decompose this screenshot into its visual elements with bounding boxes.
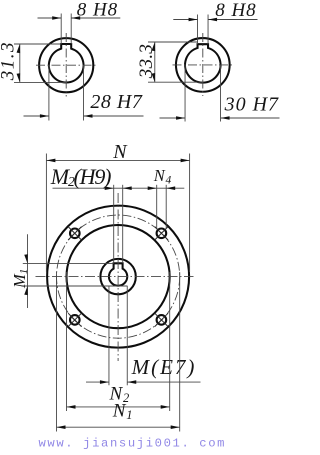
dimension 28 H7: value label <box>90 91 142 113</box>
dimension 28 H7: extension lines <box>49 65 84 120</box>
bolt hole top-left <box>68 227 81 240</box>
dimension N2: value label <box>109 383 131 405</box>
dimension 8 H8 (right): extension lines <box>198 15 209 45</box>
flange bore circle with keyway <box>109 263 127 285</box>
svg-text:M(E7): M(E7) <box>131 355 197 379</box>
svg-text:28 H7: 28 H7 <box>90 91 142 113</box>
dimension 8 H8 (right): dimension lines and arrows <box>173 18 257 22</box>
dimension M2(H9): value label <box>50 164 111 189</box>
bolt hole bottom-right <box>155 313 168 326</box>
horizontal centerline, left section <box>36 64 97 66</box>
bore circle with keyway, left section <box>49 44 84 83</box>
dimension 33.3: value label (rotated) <box>136 44 157 79</box>
dimension N4: value label <box>153 166 172 187</box>
dimension 31.3: extension lines <box>14 44 67 82</box>
svg-text:www. jiansuji001. com: www. jiansuji001. com <box>39 437 227 451</box>
outer circle, left section <box>39 38 93 92</box>
dimension 33.3: dimension line and arrows <box>152 42 156 82</box>
dimension 30 H7: extension lines <box>185 65 221 122</box>
dimension N2: dimension line and arrows <box>67 405 170 409</box>
svg-text:8 H8: 8 H8 <box>215 0 256 21</box>
svg-text:31.3: 31.3 <box>0 41 19 81</box>
spigot circle <box>100 259 135 294</box>
flange horizontal centerline <box>36 276 194 278</box>
dimension N4: extension lines <box>157 185 167 229</box>
bolt circle (dash-dot) <box>57 215 180 338</box>
flange vertical centerline <box>117 193 119 361</box>
dimension M2(H9): extension lines (keyway slot edges extended) <box>114 185 123 263</box>
bore circle with keyway, right section <box>185 44 221 82</box>
dimension 30 H7: value label <box>224 93 279 115</box>
dimension N4: right arrow segment <box>157 186 185 190</box>
dimension N1: extension lines <box>57 272 180 432</box>
dimension M1: extension lines <box>22 263 128 286</box>
dimension M(E7): value label <box>131 355 197 379</box>
dimension 8 H8 (right): value label <box>215 0 256 21</box>
outer circle, right section <box>176 38 230 92</box>
dimension M(E7): extension lines <box>109 286 127 386</box>
dimension N: dimension line and arrows <box>46 159 189 163</box>
svg-text:8 H8: 8 H8 <box>77 0 118 21</box>
flange outer circle <box>47 206 189 348</box>
dimension M(E7): dimension lines and arrows <box>86 380 201 384</box>
dimension 8 H8 (left): extension lines <box>61 14 71 45</box>
dimension 8 H8 (left): value label <box>77 0 118 21</box>
dimension N2: extension lines <box>67 272 170 411</box>
dimension 8 H8 (left): dimension lines and arrows <box>38 16 121 20</box>
bolt hole bottom-left <box>68 313 81 326</box>
vertical centerline, left section <box>65 33 67 97</box>
dimension M2(H9): dimension lines and arrows <box>53 186 157 190</box>
svg-text:33.3: 33.3 <box>136 44 157 79</box>
dimension N: extension lines <box>46 154 189 273</box>
bolt hole top-right <box>155 227 168 240</box>
flange rim (recess) circle <box>67 225 170 328</box>
horizontal centerline, right section <box>173 64 234 66</box>
dimension 33.3: extension lines <box>148 42 204 82</box>
dimension 31.3: value label (rotated) <box>0 41 19 81</box>
dimension N1: dimension line and arrows <box>57 425 180 429</box>
svg-text:N: N <box>112 141 128 163</box>
dimension N1: value label <box>112 401 134 423</box>
svg-text:30 H7: 30 H7 <box>224 93 279 115</box>
dimension 31.3: dimension line and arrows <box>17 44 21 82</box>
dimension M1: dimension line and arrows <box>24 234 28 308</box>
vertical centerline, right section <box>202 33 204 96</box>
dimension 30 H7: dimension lines and arrows <box>160 116 280 120</box>
dimension M1: value label (rotated) <box>10 269 30 289</box>
dimension 28 H7: dimension lines and arrows <box>24 114 144 118</box>
svg-text:M2(H9): M2(H9) <box>50 164 111 189</box>
dimension N: value label <box>112 141 128 163</box>
watermark www.jiansuji001.com <box>39 437 227 451</box>
